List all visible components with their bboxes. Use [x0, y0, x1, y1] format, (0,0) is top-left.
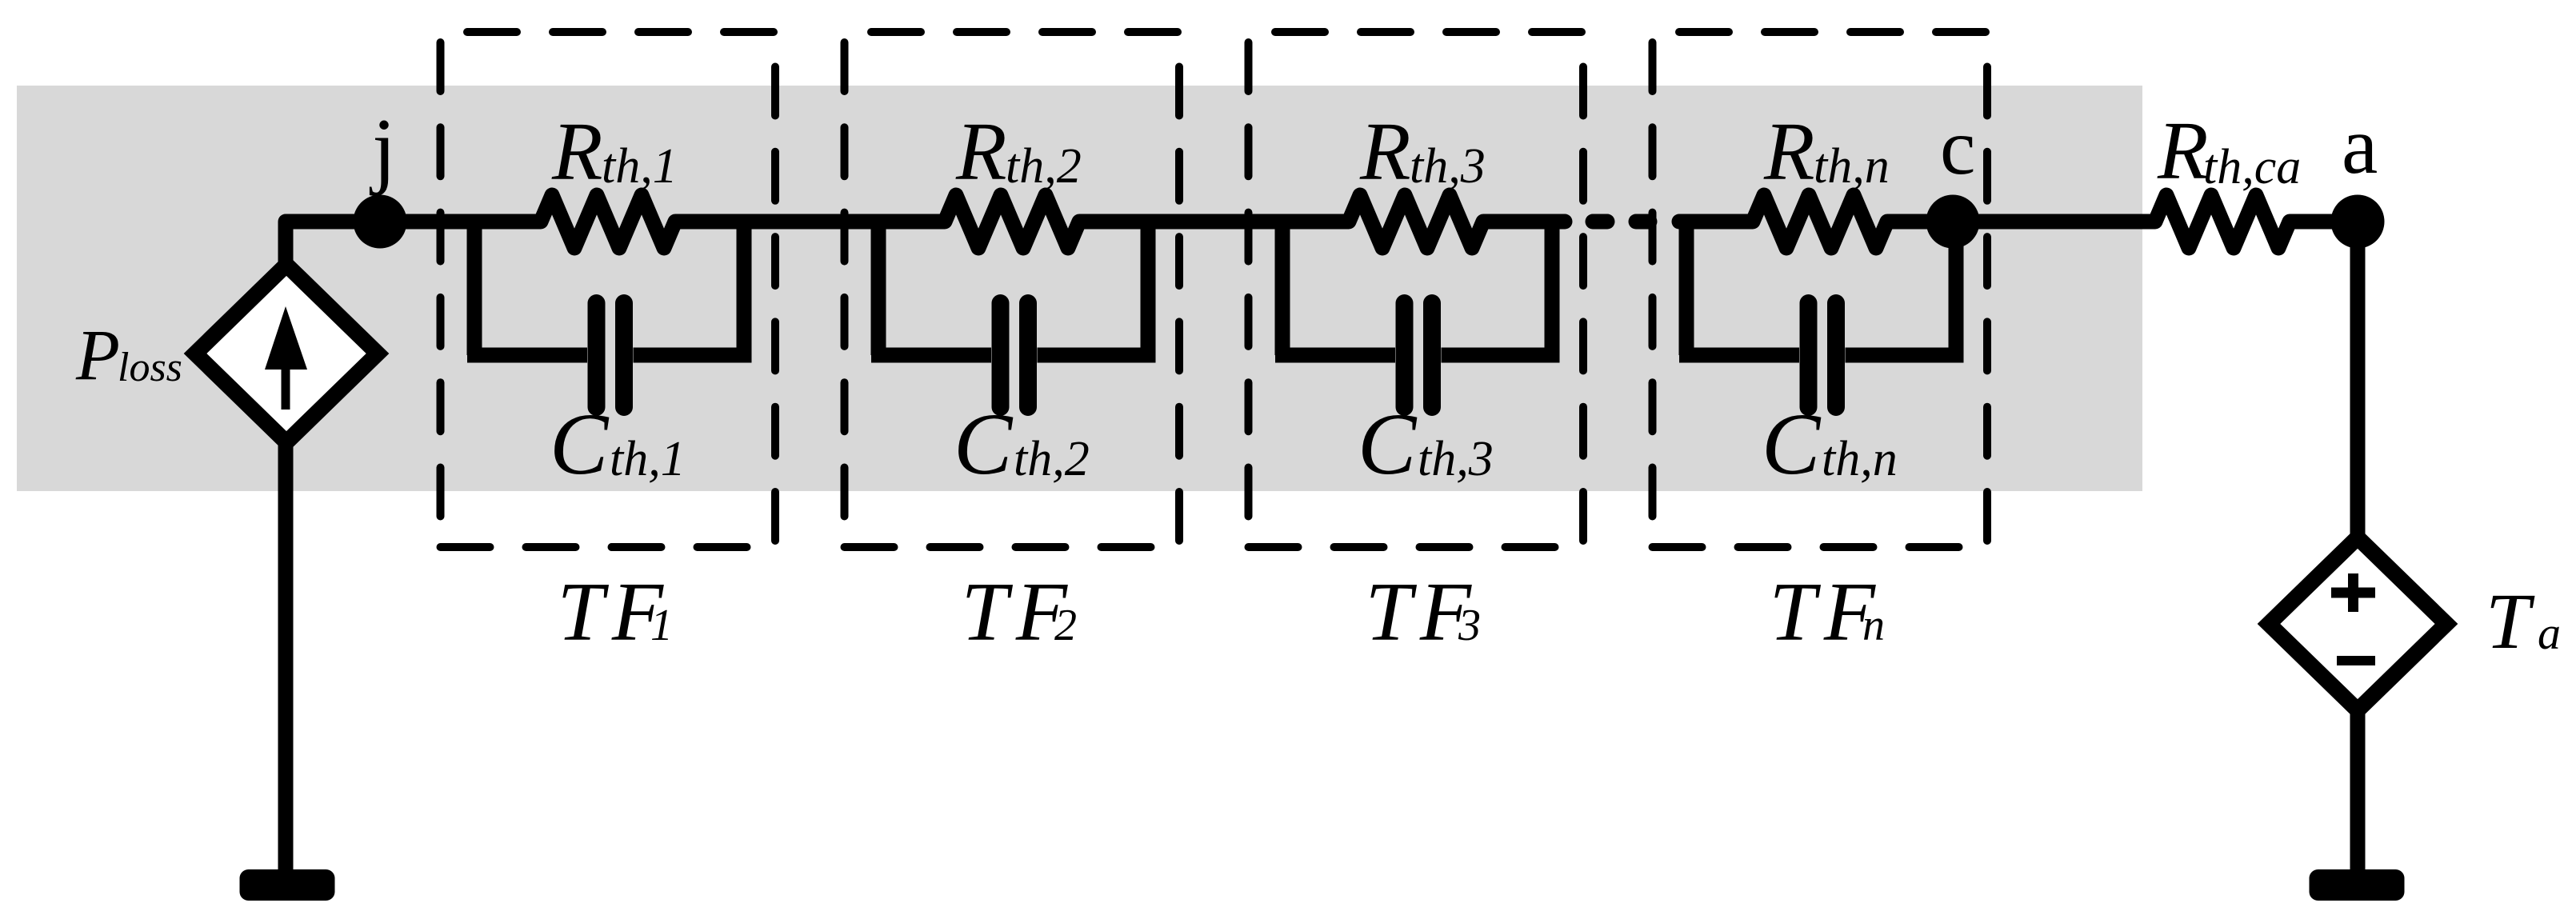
svg-text:th,3: th,3: [1410, 139, 1486, 194]
svg-text:a: a: [2342, 101, 2378, 191]
svg-text:3: 3: [1458, 601, 1481, 650]
svg-text:P: P: [75, 316, 120, 395]
svg-text:R: R: [1763, 106, 1815, 198]
svg-text:th,2: th,2: [1006, 139, 1082, 194]
svg-text:n: n: [1862, 601, 1885, 650]
svg-text:th,n: th,n: [1814, 139, 1890, 194]
svg-text:a: a: [2538, 607, 2561, 659]
svg-text:C: C: [550, 395, 610, 493]
svg-text:th,1: th,1: [610, 432, 686, 486]
svg-text:C: C: [1762, 395, 1822, 493]
svg-text:c: c: [1940, 102, 1975, 191]
svg-text:T: T: [2486, 577, 2535, 665]
svg-text:th,n: th,n: [1822, 432, 1898, 486]
svg-text:th,3: th,3: [1418, 432, 1494, 486]
svg-text:R: R: [551, 106, 603, 198]
svg-text:R: R: [1359, 106, 1411, 198]
svg-text:th,1: th,1: [602, 139, 678, 194]
svg-text:R: R: [955, 106, 1007, 198]
svg-text:loss: loss: [118, 345, 182, 390]
svg-text:2: 2: [1054, 601, 1077, 650]
svg-text:th,ca: th,ca: [2203, 140, 2301, 194]
svg-text:1: 1: [650, 601, 673, 650]
svg-text:th,2: th,2: [1014, 432, 1090, 486]
svg-text:R: R: [2157, 105, 2209, 197]
svg-text:C: C: [954, 395, 1014, 493]
svg-text:j: j: [369, 102, 396, 197]
svg-text:C: C: [1358, 395, 1418, 493]
